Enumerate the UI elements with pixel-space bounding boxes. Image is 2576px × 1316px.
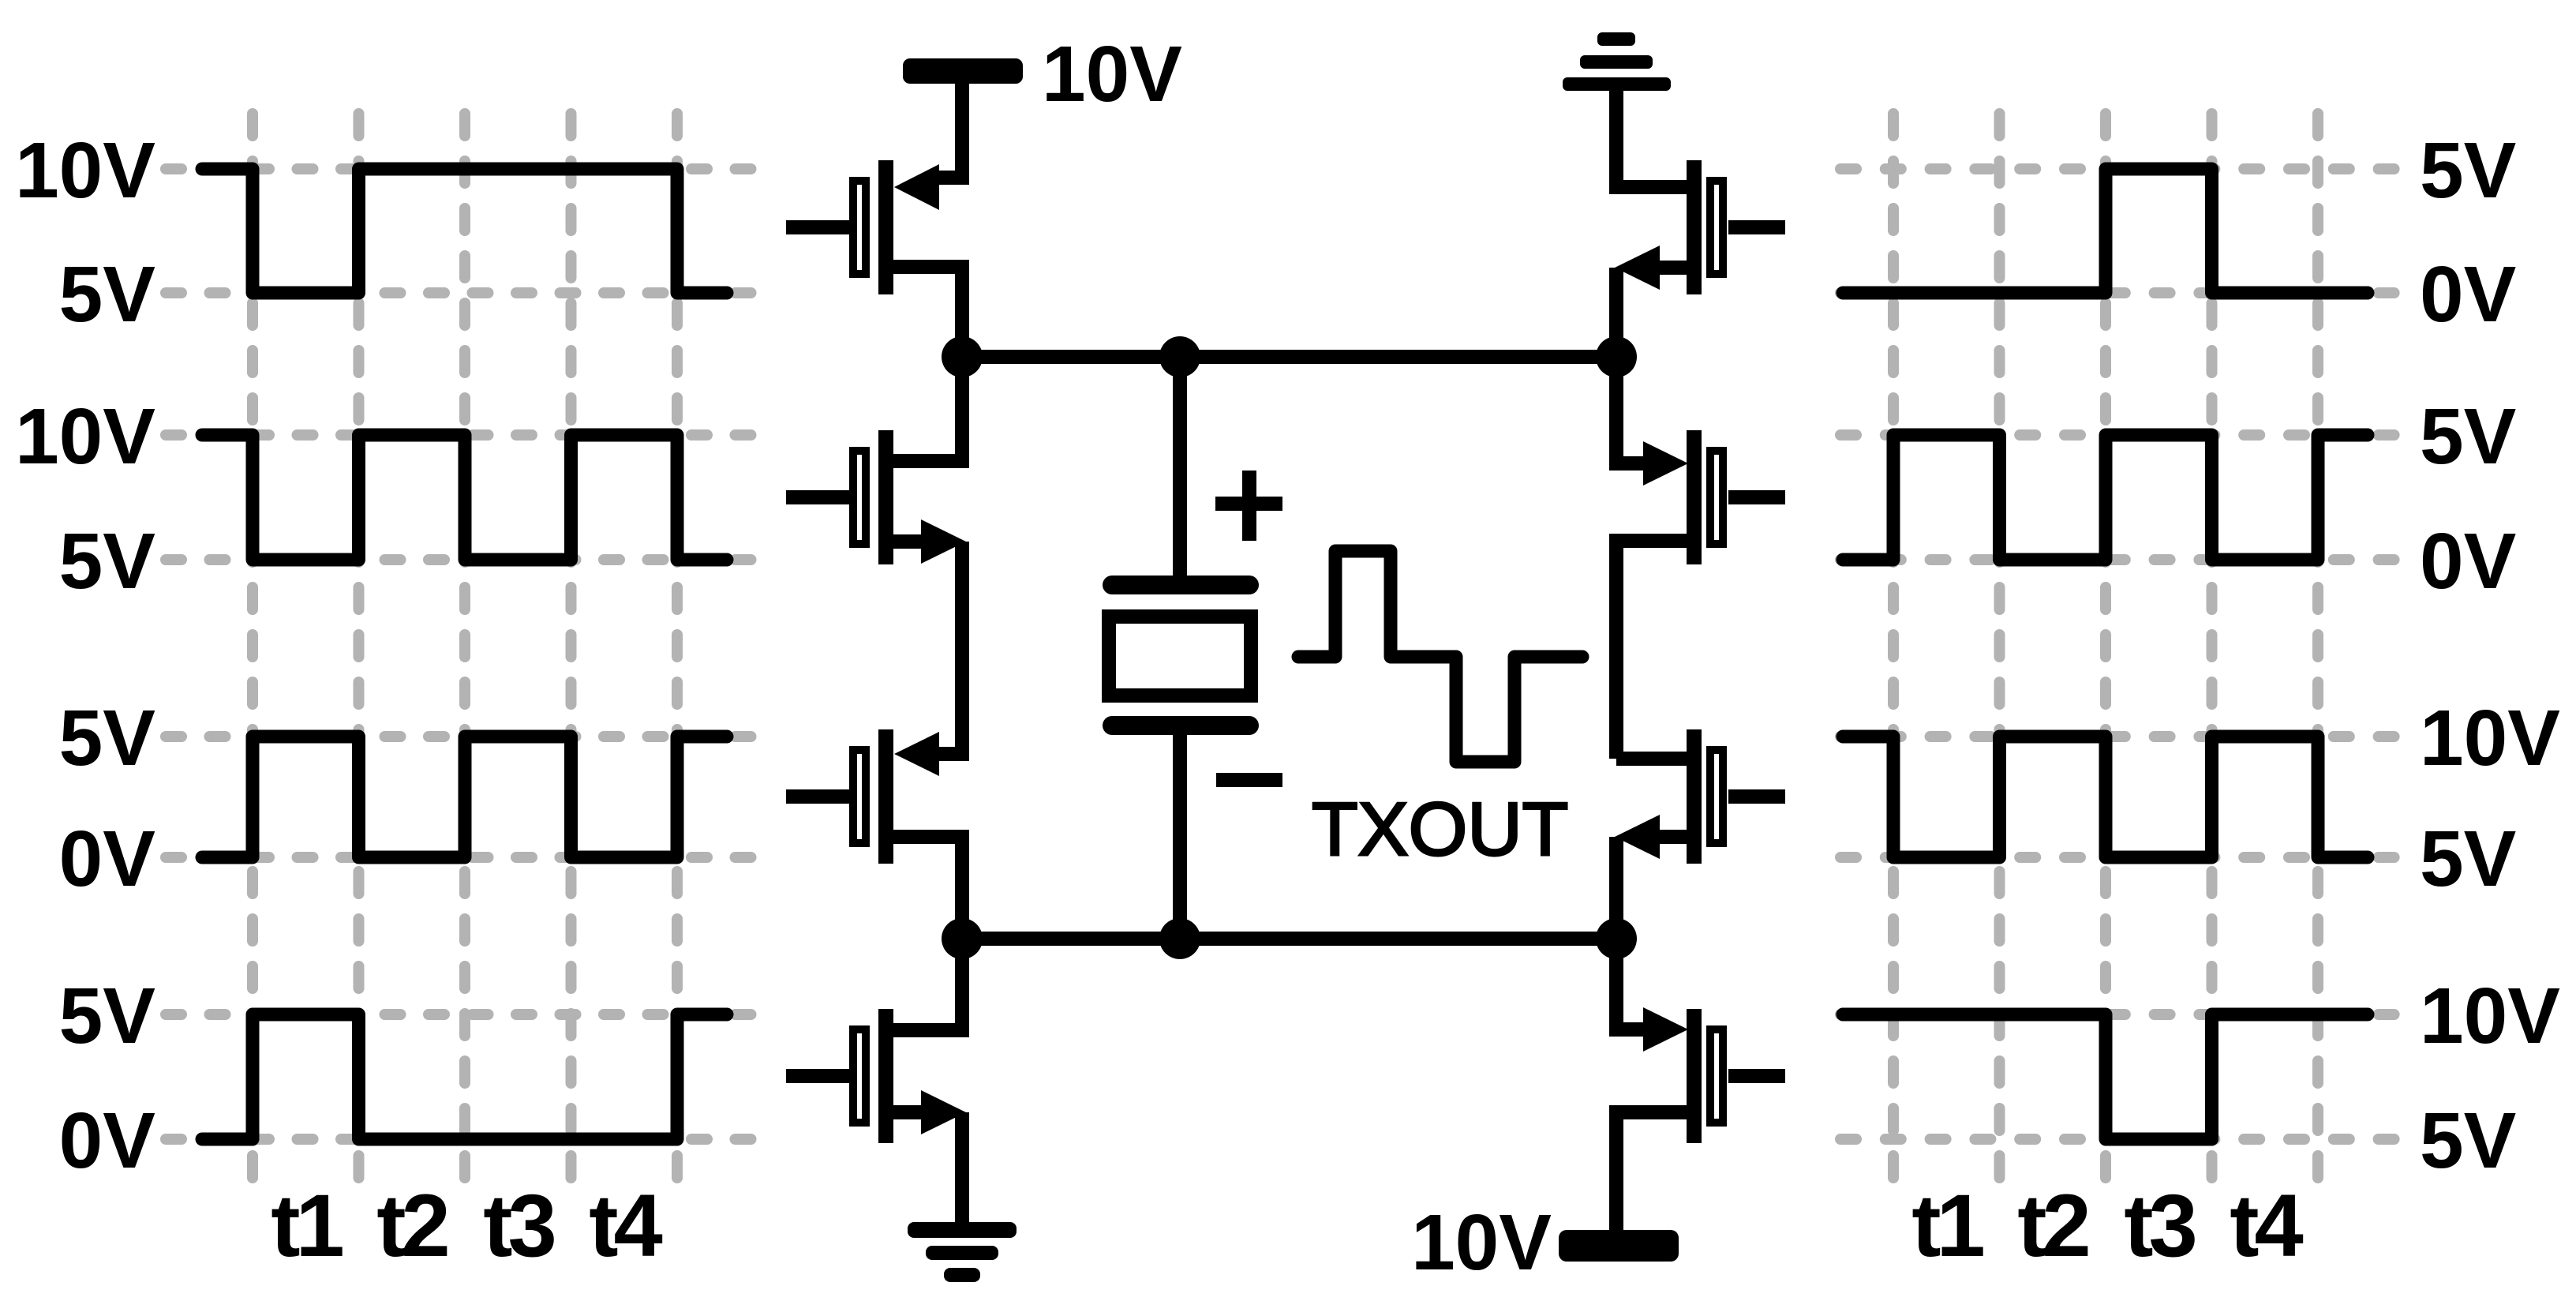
node right leg lower junction — [1596, 918, 1637, 959]
wire piezo top connection — [1173, 357, 1187, 577]
label - minus polarity — [1216, 773, 1282, 787]
wire piezo bottom connection — [1173, 733, 1187, 939]
waveform left row 1 (gate drive 10V/5V) — [202, 169, 727, 293]
power rail bar 10V bottom right — [1559, 1230, 1679, 1262]
svg-text:5V: 5V — [2420, 392, 2517, 481]
wire junction to M6 top lead — [1616, 357, 1643, 463]
node left leg upper junction — [942, 336, 983, 377]
transistor M6 (right leg, second) — [1616, 430, 1785, 759]
svg-text:5V: 5V — [2420, 815, 2517, 903]
piezo transducer X1 top plate — [1112, 576, 1249, 594]
waveform right row 4 (gate drive 10V/5V pulse) — [1843, 1014, 2368, 1139]
svg-text:t3: t3 — [483, 1176, 554, 1275]
svg-text:t4: t4 — [589, 1176, 662, 1275]
svg-text:10V: 10V — [1411, 1198, 1552, 1287]
TXOUT output waveform icon — [1298, 551, 1582, 762]
wire M4 source to ground — [955, 1112, 969, 1225]
piezo transducer X1 bottom plate — [1112, 716, 1249, 735]
wire M2 source to M3 top lead — [939, 542, 962, 754]
wire M5 source to junction — [1609, 268, 1623, 357]
transistor M4 (left leg, bottom) — [786, 1009, 966, 1143]
transistor M8 (right leg, bottom) — [1616, 1007, 1785, 1232]
svg-text:0V: 0V — [59, 1097, 156, 1185]
svg-text:10V: 10V — [15, 126, 155, 215]
ground symbol top right (flipped) — [1563, 32, 1671, 91]
svg-text:t2: t2 — [376, 1176, 447, 1275]
ground symbol bottom left — [908, 1222, 1017, 1282]
wire supply stem to M1 top lead — [938, 81, 962, 178]
waveform left row 3 (gate drive 5V/0V square) — [202, 737, 727, 857]
wire junction to M2 top lead — [893, 357, 962, 461]
wire ground stem to M5 top lead — [1616, 88, 1687, 187]
right timing grid vertical dashed lines t0..t4 — [1893, 114, 2318, 1178]
waveform right row 3 (gate drive 10V/5V square) — [1843, 737, 2368, 857]
svg-text:5V: 5V — [2420, 1097, 2517, 1185]
svg-text:t3: t3 — [2124, 1176, 2195, 1275]
right timing grid horizontal dashed voltage levels — [1840, 169, 2394, 1139]
transistor M3 (left leg, third) — [786, 729, 962, 939]
svg-text:t1: t1 — [271, 1176, 343, 1275]
svg-text:5V: 5V — [59, 517, 156, 606]
svg-text:5V: 5V — [2420, 126, 2517, 215]
svg-text:10V: 10V — [15, 392, 155, 481]
left timing grid vertical dashed lines t0..t4 — [253, 114, 677, 1178]
svg-text:t2: t2 — [2017, 1176, 2087, 1275]
svg-text:5V: 5V — [59, 972, 156, 1060]
waveform right row 2 (gate drive 5V/0V square) — [1843, 435, 2368, 560]
wire M6 source to M7 top lead — [1616, 752, 1687, 766]
wire junction to M4 top lead — [893, 939, 962, 1030]
node left leg lower junction — [942, 918, 983, 959]
svg-text:10V: 10V — [2420, 694, 2560, 782]
svg-text:10V: 10V — [2420, 972, 2560, 1060]
waveform right row 1 (gate drive 5V/0V pulse) — [1843, 169, 2368, 293]
transistor M5 (right leg, top) — [1615, 160, 1785, 294]
wire bottom bus (drain node) — [962, 932, 1616, 946]
transistor M7 (right leg, third) — [1615, 729, 1785, 864]
transistor M2 (left leg, second) — [786, 430, 966, 564]
svg-text:5V: 5V — [59, 250, 156, 339]
waveform left row 2 (gate drive 10V/5V square) — [202, 435, 727, 560]
svg-text:TXOUT: TXOUT — [1312, 787, 1568, 872]
node right leg upper junction — [1596, 336, 1637, 377]
power rail bar 10V top left — [903, 58, 1023, 84]
wire top bus (drain node) — [962, 350, 1616, 364]
wire junction to M8 top lead — [1616, 939, 1643, 1029]
label + plus polarity — [1215, 471, 1282, 541]
svg-text:5V: 5V — [59, 694, 156, 782]
svg-text:0V: 0V — [59, 815, 156, 903]
svg-text:10V: 10V — [1042, 30, 1182, 118]
svg-text:0V: 0V — [2420, 517, 2517, 606]
transistor M1 (left leg, top) — [786, 160, 962, 357]
node bottom bus piezo tap — [1159, 918, 1200, 959]
piezo transducer X1 crystal body — [1109, 617, 1251, 695]
svg-text:t1: t1 — [1911, 1176, 1983, 1275]
svg-text:t4: t4 — [2230, 1176, 2303, 1275]
waveform left row 4 (gate drive 5V/0V) — [202, 1014, 727, 1139]
svg-text:0V: 0V — [2420, 250, 2517, 339]
wire M7 source to junction — [1609, 837, 1623, 939]
node top bus piezo tap — [1159, 336, 1200, 377]
left timing grid horizontal dashed voltage levels — [166, 169, 751, 1139]
